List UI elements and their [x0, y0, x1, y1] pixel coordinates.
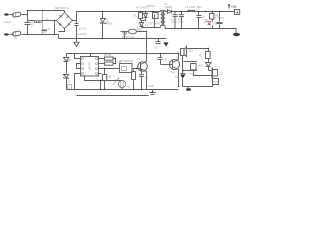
svg-text:PC817 opto: PC817 opto [122, 36, 135, 39]
svg-text:OUT: OUT [219, 74, 224, 76]
svg-text:tr: tr [113, 75, 115, 78]
svg-text:sw: sw [14, 38, 17, 40]
svg-text:PWR: PWR [213, 82, 219, 84]
svg-text:mains: mains [4, 20, 12, 24]
svg-text:C12: C12 [163, 60, 168, 62]
svg-text:Electrolitic: Electrolitic [77, 33, 88, 36]
svg-text:470u: 470u [172, 22, 178, 24]
svg-text:TOP204: TOP204 [147, 6, 156, 8]
svg-text:L2 3.3uH: L2 3.3uH [186, 7, 196, 9]
svg-text:LED: LED [198, 66, 203, 68]
svg-text:NE555: NE555 [88, 62, 91, 70]
svg-text:KBPC206 1A: KBPC206 1A [55, 7, 69, 10]
svg-text:PIR SENSOR: PIR SENSOR [119, 61, 134, 63]
svg-text:+5V: +5V [231, 5, 238, 9]
svg-text:470u: 470u [179, 22, 185, 24]
svg-text:P6KE: P6KE [107, 24, 113, 26]
svg-text:1N5822: 1N5822 [165, 7, 174, 9]
svg-text:C3 22u: C3 22u [79, 28, 87, 30]
svg-text:100n: 100n [197, 7, 203, 9]
svg-text:TOP204YAI: TOP204YAI [148, 23, 160, 26]
svg-text:47k 1n4937: 47k 1n4937 [136, 8, 149, 10]
svg-text:BZ1: BZ1 [189, 51, 194, 53]
svg-text:R3 10k: R3 10k [104, 55, 112, 57]
svg-text:4N25: 4N25 [137, 30, 143, 32]
svg-text:GND: GND [149, 86, 154, 88]
